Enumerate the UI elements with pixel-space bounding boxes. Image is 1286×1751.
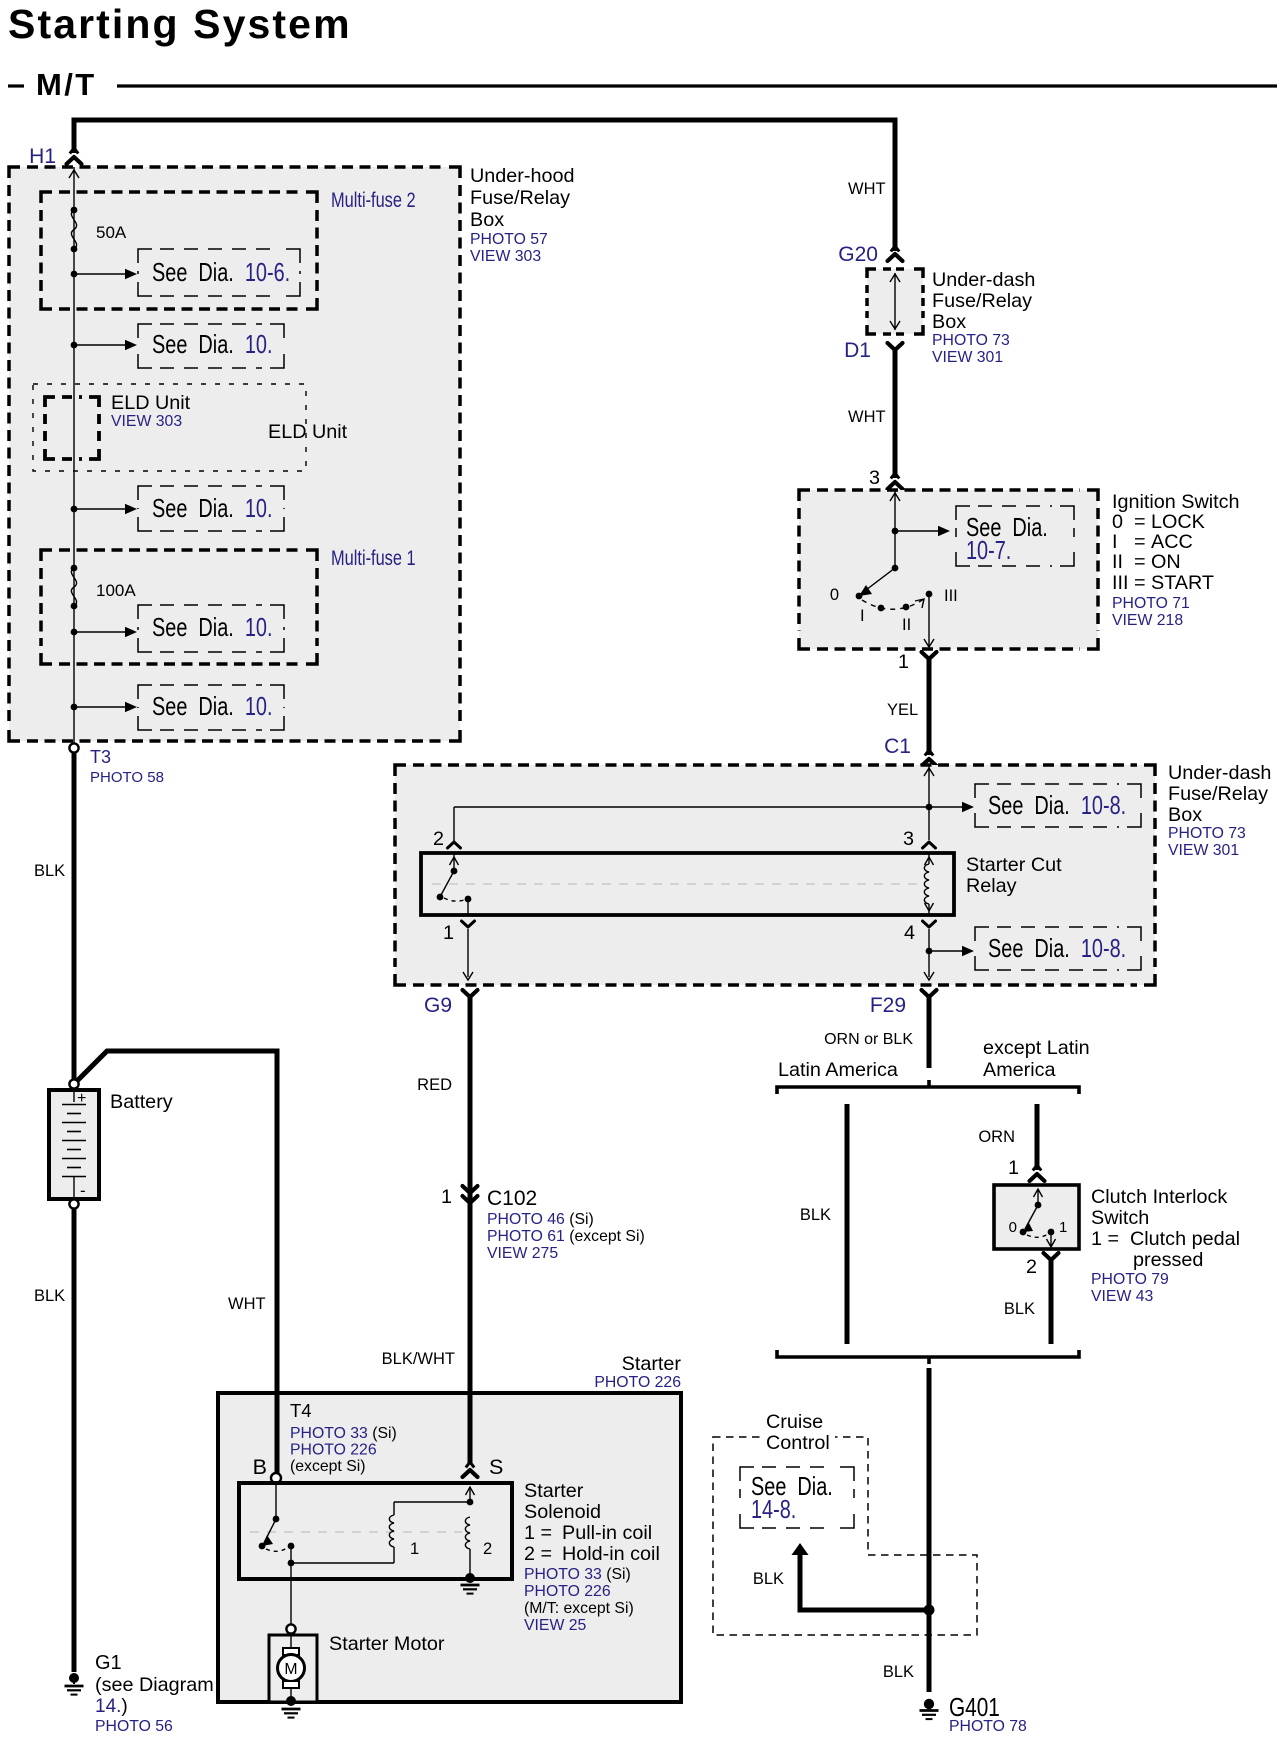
wire ORN or BLK — [824, 995, 929, 1068]
battery label — [110, 1091, 173, 1113]
svg-text:H1: H1 — [29, 145, 56, 168]
svg-text:1: 1 — [898, 651, 909, 673]
fuse 100A — [71, 565, 137, 610]
svg-text:START: START — [1151, 572, 1214, 594]
wire BLK to battery — [34, 752, 74, 1080]
svg-text:Clutch pedal: Clutch pedal — [1130, 1228, 1240, 1250]
svg-text:T3: T3 — [90, 747, 111, 767]
svg-text:Ignition Switch: Ignition Switch — [1112, 491, 1240, 513]
relay feed wires — [454, 765, 974, 841]
svg-text:III: III — [1112, 572, 1129, 594]
ELD unit outer box — [33, 384, 306, 471]
wire internal bus — [69, 167, 79, 743]
connector T4 labels — [290, 1400, 397, 1475]
svg-text:PHOTO 58: PHOTO 58 — [90, 769, 164, 786]
svg-text:B: B — [253, 1455, 267, 1479]
svg-text:50A: 50A — [96, 223, 127, 242]
svg-text:Fuse/Relay: Fuse/Relay — [1168, 783, 1268, 805]
node D1 — [844, 339, 902, 362]
svg-text:Starter Motor: Starter Motor — [329, 1633, 445, 1655]
svg-text:Starter Cut: Starter Cut — [966, 854, 1062, 876]
svg-text:Starter: Starter — [524, 1480, 584, 1502]
svg-text:1 =: 1 = — [524, 1522, 552, 1544]
svg-text:Control: Control — [766, 1432, 830, 1454]
svg-text:See Dia. 10.: See Dia. 10. — [152, 494, 272, 523]
svg-text:0: 0 — [1009, 1219, 1017, 1236]
svg-text:See Dia. 10.: See Dia. 10. — [152, 330, 272, 359]
pin 3 relay — [903, 828, 936, 850]
svg-text:PHOTO 226: PHOTO 226 — [524, 1583, 611, 1600]
svg-text:WHT: WHT — [228, 1295, 266, 1313]
clutch switch contact — [1020, 1189, 1056, 1247]
solenoid dashed centerline — [250, 1531, 462, 1533]
svg-text:PHOTO 71: PHOTO 71 — [1112, 595, 1190, 612]
svg-text:ORN: ORN — [978, 1128, 1015, 1146]
svg-text:1 =: 1 = — [1091, 1228, 1119, 1250]
svg-text:PHOTO 73: PHOTO 73 — [1168, 825, 1246, 842]
wire BLK cruise branch — [753, 1554, 929, 1610]
svg-text:YEL: YEL — [887, 701, 918, 719]
svg-text:See Dia. 10-8.: See Dia. 10-8. — [988, 934, 1126, 963]
node C1 — [884, 735, 936, 766]
svg-text:PHOTO 57: PHOTO 57 — [470, 231, 548, 248]
svg-text:PHOTO 73: PHOTO 73 — [932, 332, 1010, 349]
svg-text:100A: 100A — [96, 581, 136, 600]
svg-text:ELD Unit: ELD Unit — [111, 392, 191, 414]
svg-text:G20: G20 — [838, 243, 878, 266]
svg-text:Battery: Battery — [110, 1091, 173, 1113]
wire WHT battery to starter B — [77, 1051, 277, 1474]
svg-text:C102: C102 — [487, 1187, 537, 1210]
pin 1 ignition — [898, 651, 937, 673]
ELD unit inner box — [45, 397, 99, 459]
pin 2 clutch — [1026, 1253, 1059, 1278]
svg-text:1: 1 — [410, 1540, 419, 1558]
ground G401 — [920, 1699, 939, 1719]
svg-text:2 =: 2 = — [524, 1543, 552, 1565]
option bus bottom — [777, 1350, 1079, 1364]
see dia 10 box d — [138, 685, 284, 730]
svg-text:Solenoid: Solenoid — [524, 1501, 601, 1523]
svg-text:Box: Box — [1168, 804, 1202, 826]
wire BLK to G401 — [883, 1368, 929, 1692]
label except Latin America — [983, 1037, 1090, 1081]
svg-text:BLK: BLK — [34, 862, 65, 880]
node G9 — [424, 990, 478, 1017]
relay switch contact — [437, 853, 472, 915]
see dia 10-8 box bottom — [975, 927, 1141, 970]
svg-text:VIEW 303: VIEW 303 — [470, 248, 541, 265]
under-dash box labels — [1168, 762, 1271, 859]
starter cut relay label — [966, 854, 1062, 897]
svg-text:Latin America: Latin America — [778, 1059, 898, 1081]
wire WHT to ignition — [848, 350, 895, 478]
under-dash fuse/relay box — [395, 765, 1155, 985]
svg-text:PHOTO 226: PHOTO 226 — [594, 1374, 681, 1391]
wire BLK/WHT inside starter — [468, 1395, 473, 1464]
svg-text:RED: RED — [417, 1076, 452, 1094]
clutch position labels — [1009, 1219, 1068, 1236]
wire BLK to G1 — [34, 1209, 74, 1672]
see dia 10-8 box top — [975, 784, 1141, 827]
see dia 10-6 box — [138, 249, 300, 296]
svg-text:WHT: WHT — [848, 408, 886, 426]
svg-text:except Latin: except Latin — [983, 1037, 1090, 1059]
svg-text:VIEW 218: VIEW 218 — [1112, 612, 1183, 629]
svg-text:pressed: pressed — [1133, 1249, 1203, 1271]
option bus top — [777, 1080, 1079, 1094]
cruise control connector triangle — [792, 1543, 809, 1555]
svg-text:F29: F29 — [870, 994, 906, 1017]
svg-text:See Dia. 10-6.: See Dia. 10-6. — [152, 258, 290, 287]
relay coil — [924, 853, 933, 915]
ignition position labels — [830, 586, 958, 634]
svg-text:M/T: M/T — [36, 67, 97, 102]
svg-text:Under-hood: Under-hood — [470, 165, 574, 187]
svg-text:III: III — [944, 587, 958, 605]
svg-text:0: 0 — [830, 586, 839, 604]
cruise control label — [763, 1411, 835, 1454]
solenoid hold-in coil 2 — [465, 1487, 492, 1577]
svg-text:VIEW 303: VIEW 303 — [111, 413, 182, 430]
pin 3 ignition — [869, 467, 903, 489]
wire BLK clutch out — [1004, 1260, 1051, 1344]
label Latin America — [778, 1059, 898, 1081]
wire relay pin4 out — [924, 929, 974, 980]
ELD unit labels — [111, 392, 348, 443]
starter motor symbol — [278, 1634, 305, 1700]
svg-text:WHT: WHT — [848, 180, 886, 198]
wire arrow to dia 10-6 — [71, 269, 137, 279]
wire arrow to dia 10 c — [71, 627, 137, 637]
node starter motor in — [286, 1624, 295, 1633]
multi-fuse 1 label — [331, 546, 416, 569]
subtitle M/T — [8, 67, 1277, 102]
svg-text:Under-dash: Under-dash — [1168, 762, 1271, 784]
svg-text:Box: Box — [932, 311, 966, 333]
connector C102 — [441, 1186, 645, 1262]
pin 4 relay — [904, 921, 936, 944]
svg-text:1: 1 — [1008, 1157, 1019, 1179]
svg-text:1: 1 — [441, 1186, 452, 1208]
under-hood box label — [470, 165, 574, 265]
ground G1 labels — [95, 1652, 214, 1735]
fuse 50A — [71, 207, 127, 253]
svg-text:Hold-in coil: Hold-in coil — [562, 1543, 660, 1565]
svg-text:See Dia. 10.: See Dia. 10. — [152, 613, 272, 642]
svg-text:I: I — [860, 607, 865, 625]
node battery negative — [69, 1199, 78, 1208]
svg-text:=: = — [1134, 572, 1146, 594]
relay dashed centerline — [432, 883, 922, 885]
starter cut relay box — [421, 853, 954, 915]
multi-fuse 1 box — [41, 550, 317, 664]
svg-text:Under-dash: Under-dash — [932, 269, 1035, 291]
svg-text:2: 2 — [483, 1540, 492, 1558]
svg-text:ON: ON — [1151, 551, 1181, 573]
starter motor box — [269, 1635, 317, 1702]
svg-text:VIEW 25: VIEW 25 — [524, 1617, 587, 1634]
terminal S — [463, 1455, 504, 1479]
wire solenoid to motor — [290, 1563, 292, 1624]
svg-text:Cruise: Cruise — [766, 1411, 823, 1433]
svg-text:VIEW 301: VIEW 301 — [932, 349, 1003, 366]
junction cruise — [924, 1605, 935, 1616]
svg-text:ORN or BLK: ORN or BLK — [824, 1031, 913, 1048]
svg-text:II: II — [1112, 551, 1123, 573]
under-dash connector labels — [932, 269, 1035, 366]
ignition rotary switch — [856, 565, 933, 612]
svg-text:PHOTO 46 (Si): PHOTO 46 (Si) — [487, 1211, 594, 1228]
svg-text:BLK: BLK — [1004, 1300, 1035, 1318]
svg-text:G1: G1 — [95, 1652, 122, 1674]
clutch interlock labels — [1091, 1186, 1240, 1305]
ground G401 labels — [949, 1693, 1027, 1735]
svg-text:Pull-in coil: Pull-in coil — [562, 1522, 652, 1544]
svg-text:14.): 14.) — [95, 1696, 128, 1717]
under-dash connector box — [867, 269, 923, 334]
svg-text:VIEW 43: VIEW 43 — [1091, 1288, 1154, 1305]
svg-text:1: 1 — [1059, 1219, 1067, 1236]
wire arrow to dia 10 b — [71, 504, 137, 514]
wire through under-dash box — [890, 273, 900, 330]
wire BLK/WHT label — [382, 1350, 455, 1368]
svg-text:10-7.: 10-7. — [966, 536, 1011, 565]
see dia 10 box c — [138, 605, 284, 652]
ground G1 — [65, 1673, 84, 1695]
svg-text:II: II — [902, 616, 911, 634]
svg-text:BLK: BLK — [753, 1570, 784, 1588]
svg-text:(see Diagram: (see Diagram — [95, 1674, 214, 1696]
starter label — [594, 1353, 681, 1391]
svg-text:2: 2 — [1026, 1256, 1037, 1278]
wire BLK latin america — [800, 1104, 847, 1344]
clutch interlock switch box — [994, 1185, 1079, 1249]
svg-text:-: - — [80, 1181, 86, 1200]
svg-text:=: = — [1134, 551, 1146, 573]
svg-text:Starting System: Starting System — [8, 1, 352, 47]
svg-text:I: I — [1112, 531, 1118, 553]
battery — [49, 1090, 99, 1200]
svg-text:PHOTO 226: PHOTO 226 — [290, 1442, 377, 1459]
svg-text:PHOTO 61 (except Si): PHOTO 61 (except Si) — [487, 1228, 645, 1245]
pin 1 relay — [443, 921, 475, 944]
wire ignition out — [924, 596, 934, 647]
svg-text:T4: T4 — [290, 1400, 312, 1421]
svg-text:ELD Unit: ELD Unit — [268, 421, 348, 443]
svg-text:C1: C1 — [884, 735, 911, 758]
svg-text:=: = — [1134, 511, 1146, 533]
solenoid internal ground — [461, 1573, 480, 1594]
svg-text:S: S — [489, 1455, 503, 1479]
starter solenoid labels — [524, 1480, 660, 1634]
svg-text:Starter: Starter — [622, 1353, 682, 1375]
svg-text:PHOTO 33 (Si): PHOTO 33 (Si) — [524, 1566, 631, 1583]
cruise control box — [713, 1437, 977, 1635]
starter motor ground — [282, 1696, 301, 1718]
solenoid pull-in coil 1 — [389, 1502, 470, 1563]
svg-text:ACC: ACC — [1151, 531, 1193, 553]
svg-text:4: 4 — [904, 922, 915, 944]
wire relay pin1 out — [463, 929, 473, 980]
node battery positive — [69, 1079, 78, 1088]
wire WHT label top — [848, 180, 886, 198]
node H1 — [29, 145, 81, 168]
ignition switch box — [799, 490, 1098, 649]
svg-text:BLK: BLK — [883, 1663, 914, 1681]
svg-text:Fuse/Relay: Fuse/Relay — [470, 187, 570, 209]
see dia 14-8 box — [740, 1467, 854, 1528]
wire battery feed H1 to G20 — [74, 120, 895, 251]
ignition switch labels — [1112, 491, 1240, 629]
svg-text:BLK: BLK — [800, 1206, 831, 1224]
node T3 — [69, 743, 164, 786]
svg-text:LOCK: LOCK — [1151, 511, 1205, 533]
svg-text:0: 0 — [1112, 511, 1123, 533]
ignition internal wires — [890, 490, 950, 568]
svg-text:PHOTO 79: PHOTO 79 — [1091, 1271, 1169, 1288]
node F29 — [870, 990, 937, 1017]
svg-text:America: America — [983, 1059, 1056, 1081]
svg-text:Switch: Switch — [1091, 1207, 1149, 1229]
svg-text:See Dia. 10-8.: See Dia. 10-8. — [988, 791, 1126, 820]
svg-text:See Dia. 10.: See Dia. 10. — [152, 692, 272, 721]
svg-text:1: 1 — [443, 922, 454, 944]
svg-text:(except Si): (except Si) — [290, 1458, 366, 1475]
svg-text:G9: G9 — [424, 994, 452, 1017]
svg-text:2: 2 — [433, 828, 444, 850]
wire RED — [417, 995, 470, 1468]
pin 1 clutch — [1008, 1157, 1045, 1181]
svg-text:3: 3 — [903, 828, 914, 850]
svg-text:BLK: BLK — [34, 1287, 65, 1305]
see dia 10 box b — [138, 486, 284, 531]
starter motor label — [329, 1633, 445, 1655]
svg-text:14-8.: 14-8. — [751, 1495, 796, 1524]
svg-text:Fuse/Relay: Fuse/Relay — [932, 290, 1032, 312]
wire arrow to dia 10 d — [71, 702, 137, 712]
svg-text:PHOTO 78: PHOTO 78 — [949, 1718, 1027, 1735]
starter solenoid box — [239, 1483, 512, 1579]
multi-fuse 2 label — [331, 188, 416, 211]
svg-text:VIEW 275: VIEW 275 — [487, 1245, 558, 1262]
svg-text:(M/T: except Si): (M/T: except Si) — [524, 1600, 634, 1617]
svg-text:D1: D1 — [844, 339, 871, 362]
wire WHT inside starter — [275, 1395, 280, 1475]
solenoid switch contact — [259, 1483, 394, 1566]
wire ORN clutch — [978, 1104, 1037, 1170]
wire arrow to dia 10 a — [71, 340, 137, 350]
svg-text:+: + — [77, 1090, 86, 1107]
pin 2 relay — [433, 828, 461, 850]
svg-text:Multi-fuse 2: Multi-fuse 2 — [331, 188, 416, 211]
wire YEL — [887, 659, 929, 755]
starter box — [218, 1393, 681, 1702]
svg-text:M: M — [284, 1661, 297, 1678]
svg-text:PHOTO 56: PHOTO 56 — [95, 1718, 173, 1735]
svg-text:Clutch Interlock: Clutch Interlock — [1091, 1186, 1227, 1208]
svg-text:=: = — [1134, 531, 1146, 553]
node G20 — [838, 243, 902, 266]
under-hood fuse/relay box — [9, 167, 460, 741]
svg-text:Relay: Relay — [966, 875, 1017, 897]
svg-text:Multi-fuse 1: Multi-fuse 1 — [331, 546, 416, 569]
see dia 10 box a — [138, 324, 284, 368]
svg-text:VIEW 301: VIEW 301 — [1168, 842, 1239, 859]
terminal B — [253, 1455, 281, 1483]
svg-text:PHOTO 33 (Si): PHOTO 33 (Si) — [290, 1425, 397, 1442]
svg-text:3: 3 — [869, 467, 880, 489]
title — [8, 1, 352, 47]
svg-text:BLK/WHT: BLK/WHT — [382, 1350, 455, 1368]
svg-text:Box: Box — [470, 209, 504, 231]
multi-fuse 2 box — [41, 192, 317, 309]
see dia 10-7 box — [956, 506, 1074, 566]
